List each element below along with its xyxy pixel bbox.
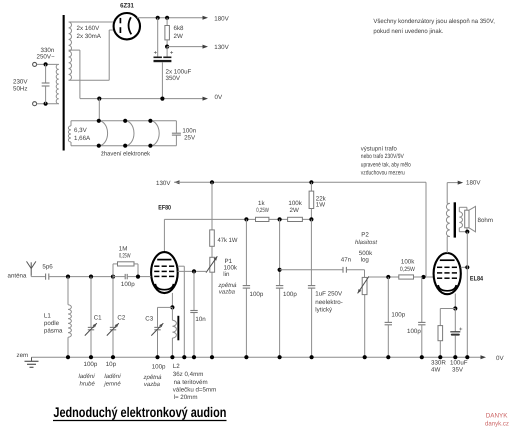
EF80 grid g1 dashes xyxy=(154,275,159,277)
svg-text:na teritovém: na teritovém xyxy=(174,379,208,386)
svg-text:l= 20mm: l= 20mm xyxy=(174,394,198,401)
capacitor 100p grid to ground xyxy=(421,277,423,322)
wire 130V down to EL84 grid node xyxy=(425,182,427,276)
node 130V junction xyxy=(165,45,169,49)
svg-text:hrubé: hrubé xyxy=(80,381,96,388)
svg-text:zem: zem xyxy=(17,352,29,359)
node 22k junction xyxy=(309,217,313,221)
svg-text:100p: 100p xyxy=(121,281,135,288)
wire primary to 180V xyxy=(446,183,448,204)
wire EF80 g2 to P1 wiper xyxy=(178,270,206,272)
node C2 xyxy=(111,275,115,279)
svg-text:upravené tak, aby mělo: upravené tak, aby mělo xyxy=(361,162,411,169)
svg-text:2W: 2W xyxy=(174,33,183,40)
svg-text:100p: 100p xyxy=(391,312,405,319)
heater of tube 3 xyxy=(150,121,159,146)
node speaker return xyxy=(465,230,469,234)
node g3 return xyxy=(465,265,469,269)
wire speaker return to ground xyxy=(466,232,468,358)
svg-text:L2: L2 xyxy=(173,363,180,370)
svg-text:EF80: EF80 xyxy=(158,204,171,211)
transformer TR1 HT secondary 2x160V winding xyxy=(69,22,72,80)
svg-text:2W: 2W xyxy=(290,207,299,214)
svg-text:180V: 180V xyxy=(466,180,481,187)
L2 core bar xyxy=(177,316,179,341)
wire HT secondary bottom lead xyxy=(69,79,110,81)
svg-text:lin: lin xyxy=(223,271,230,278)
capacitor 100n 25V heater xyxy=(175,121,177,133)
svg-text:350V: 350V xyxy=(166,75,181,82)
svg-text:100n: 100n xyxy=(182,127,196,134)
node cathode junction xyxy=(170,305,174,309)
node input top xyxy=(44,62,48,66)
wire HT secondary center tap xyxy=(69,49,80,51)
wire 100k to EL84 grid xyxy=(414,276,434,278)
inductor L2 feedback coil xyxy=(171,307,173,320)
wire 0V to heater rail xyxy=(98,99,100,121)
svg-text:zpětná: zpětná xyxy=(217,282,237,289)
capacitor 47n coupling xyxy=(342,267,344,273)
svg-text:230V: 230V xyxy=(13,79,28,86)
svg-text:DANYK: DANYK xyxy=(486,412,508,419)
grid leak 1M 0,25W with 100p xyxy=(112,264,114,277)
svg-text:C1: C1 xyxy=(94,315,102,322)
svg-text:zpětná: zpětná xyxy=(143,374,163,381)
svg-text:Jednoduchý elektronkový audion: Jednoduchý elektronkový audion xyxy=(53,404,226,420)
potentiometer P2 500k log body xyxy=(362,277,367,294)
svg-text:danyk.cz: danyk.cz xyxy=(485,421,509,428)
svg-text:100p: 100p xyxy=(407,328,421,335)
resistor 100k 0,25W xyxy=(399,275,414,279)
svg-text:C3: C3 xyxy=(145,316,153,323)
EL84 anode bar xyxy=(440,259,455,261)
svg-text:+: + xyxy=(459,327,463,333)
node anode 100p xyxy=(244,217,248,221)
svg-text:0V: 0V xyxy=(496,355,504,362)
resistor 330R 4W cathode xyxy=(438,326,443,341)
heater of tube 1 xyxy=(99,121,108,146)
svg-text:10n: 10n xyxy=(195,316,206,323)
resistor 100k 2W xyxy=(288,217,303,221)
node 130V 47k xyxy=(210,180,214,184)
rectifier tube 6Z31 envelope xyxy=(114,13,140,39)
svg-text:0,25W: 0,25W xyxy=(119,253,131,260)
svg-text:pokud není uvedeno jinak.: pokud není uvedeno jinak. xyxy=(373,28,443,35)
capacitor 100uF 35V cathode xyxy=(454,309,456,332)
resistor 47k 1W xyxy=(211,182,213,230)
svg-text:vazba: vazba xyxy=(144,381,161,388)
wire ground rail xyxy=(32,356,482,358)
node input bottom xyxy=(44,102,48,106)
capacitor 100p anode to ground xyxy=(245,219,247,285)
svg-text:výstupní trafo: výstupní trafo xyxy=(361,145,398,152)
wire cathode to 330R xyxy=(440,308,455,310)
arrow 0V bottom xyxy=(481,355,487,359)
svg-text:hlasitost: hlasitost xyxy=(355,239,377,246)
node cathode EL84 xyxy=(453,306,457,310)
svg-text:pásma: pásma xyxy=(44,328,63,335)
pentode EF80 envelope xyxy=(151,252,178,293)
svg-text:1W: 1W xyxy=(316,202,325,209)
pentode EL84 envelope xyxy=(434,253,461,294)
svg-text:+: + xyxy=(154,51,158,57)
resistor 1k 0,25W xyxy=(256,217,269,221)
wire heater top rail xyxy=(71,120,176,122)
node EL84 grid xyxy=(421,275,425,279)
svg-text:P2: P2 xyxy=(361,231,369,238)
svg-text:36z 0,4mm: 36z 0,4mm xyxy=(173,371,204,378)
capacitor 1uF 250V xyxy=(310,219,312,285)
node C1 xyxy=(89,275,93,279)
ground rail nodes xyxy=(66,355,70,359)
wire 6Z31 cathode to 180V rail xyxy=(137,17,203,19)
EL84 cathode arc xyxy=(438,285,456,291)
transformer TR1 core xyxy=(63,15,65,151)
6Z31 anode bar 2 xyxy=(119,27,121,33)
svg-text:100k: 100k xyxy=(401,259,415,266)
ground symbol xyxy=(31,357,33,361)
svg-text:neelektro-: neelektro- xyxy=(315,299,343,306)
svg-text:100p: 100p xyxy=(84,361,98,368)
EL84 grid g2 dashes xyxy=(437,272,442,274)
arrow 130V xyxy=(203,45,209,49)
EF80 cathode arc xyxy=(155,284,173,290)
wire tank rail xyxy=(49,276,113,278)
svg-text:180V: 180V xyxy=(214,15,229,22)
node 0V filter cap xyxy=(160,97,164,101)
wire heater bottom rail xyxy=(71,145,176,147)
EF80 anode bar xyxy=(157,259,171,261)
output transformer core xyxy=(454,202,456,237)
capacitor 2x100uF 350V filter xyxy=(157,18,159,57)
6Z31 anode bar 1 xyxy=(119,18,121,23)
svg-text:25V: 25V xyxy=(184,134,196,141)
terminal input L xyxy=(33,62,37,66)
node grid join xyxy=(136,275,140,279)
svg-text:jemné: jemné xyxy=(103,381,121,388)
svg-text:47n: 47n xyxy=(341,257,352,264)
wire EF80 g3 to ground xyxy=(178,265,185,267)
EF80 grid g2 dashes xyxy=(154,270,159,272)
wire input top xyxy=(37,63,58,65)
variable capacitor C3 feedback xyxy=(154,326,160,328)
svg-text:47k 1W: 47k 1W xyxy=(218,237,238,244)
wire EL84 anode to transformer xyxy=(446,237,448,254)
wire 47n to P2 top xyxy=(364,270,366,278)
transformer TR1 heater winding 6,3V xyxy=(70,121,72,126)
capacitor 100p wiper to ground xyxy=(387,277,389,322)
node 1k-100k junction xyxy=(278,217,282,221)
svg-text:8ohm: 8ohm xyxy=(478,217,493,224)
svg-text:50Hz: 50Hz xyxy=(13,86,27,93)
node wiper 100p xyxy=(386,275,390,279)
heater of tube 2 xyxy=(125,121,134,146)
svg-text:1,66A: 1,66A xyxy=(74,135,91,142)
node g2 10n xyxy=(192,269,196,273)
wire antenna to 5p6 xyxy=(30,275,32,278)
node 180V rail cap xyxy=(156,16,160,20)
wire secondary bottom xyxy=(458,228,460,232)
svg-text:100p: 100p xyxy=(152,363,166,370)
svg-text:Všechny kondenzátory jsou ales: Všechny kondenzátory jsou alespoň na 350… xyxy=(373,18,495,25)
svg-text:130V: 130V xyxy=(156,180,171,187)
svg-text:100p: 100p xyxy=(250,291,264,298)
svg-text:C2: C2 xyxy=(117,315,125,322)
capacitor 100p grid series xyxy=(113,276,125,278)
svg-text:+: + xyxy=(170,51,174,57)
svg-text:5p6: 5p6 xyxy=(42,264,53,271)
wire 130V distribution rail xyxy=(174,181,426,183)
capacitor 5p6 antenna xyxy=(45,274,47,280)
svg-text:ladění: ladění xyxy=(79,373,97,380)
node 0V heater drop xyxy=(97,97,101,101)
svg-text:vazba: vazba xyxy=(219,288,236,295)
wire EL84 g3 to speaker return xyxy=(461,266,468,268)
wire input bottom xyxy=(37,103,58,105)
svg-text:100k: 100k xyxy=(288,200,302,207)
wire EF80 cathode xyxy=(171,293,173,308)
svg-text:žhavení elektronek: žhavení elektronek xyxy=(101,150,151,157)
svg-text:EL84: EL84 xyxy=(470,275,484,282)
svg-text:6,3V: 6,3V xyxy=(74,127,88,134)
svg-text:válečku d=5mm: válečku d=5mm xyxy=(173,387,217,394)
svg-text:35V: 35V xyxy=(452,366,464,373)
capacitor 10n screen bypass xyxy=(193,271,195,310)
variable capacitor C2 fine tuning xyxy=(112,277,114,327)
P2 wiper arrow xyxy=(358,276,369,293)
variable capacitor C1 coarse tuning xyxy=(90,277,92,327)
svg-text:ladění: ladění xyxy=(104,373,122,380)
svg-text:2x 160V: 2x 160V xyxy=(77,25,101,32)
svg-text:0,25W: 0,25W xyxy=(400,266,415,273)
6Z31 cathode arc xyxy=(129,17,132,34)
arrow 0V top xyxy=(203,97,209,101)
P1 wiper arrow xyxy=(206,256,217,272)
EL84 grid g3 dashes xyxy=(437,266,442,268)
inductor L1 antenna coil xyxy=(67,277,69,305)
node 130V 22k xyxy=(309,180,313,184)
wire EF80 anode rail xyxy=(163,219,165,252)
capacitor 330n 250V~ across mains xyxy=(45,64,47,82)
svg-text:0,25W: 0,25W xyxy=(256,207,269,214)
terminal input N xyxy=(33,102,37,106)
svg-text:2x 30mA: 2x 30mA xyxy=(77,33,102,40)
svg-text:1M: 1M xyxy=(119,246,128,253)
EL84 grid g1 dashes xyxy=(437,277,442,279)
resistor 22k 1W xyxy=(310,182,312,191)
wire junction to 47n xyxy=(279,219,281,285)
wire speaker bottom xyxy=(466,228,468,232)
svg-text:6Z31: 6Z31 xyxy=(120,3,134,10)
svg-text:6k8: 6k8 xyxy=(174,25,185,32)
svg-text:10p: 10p xyxy=(106,361,117,368)
node 180V rail resistor xyxy=(165,16,169,20)
arrow 180V output xyxy=(458,181,464,185)
svg-text:250V~: 250V~ xyxy=(37,54,55,61)
potentiometer P1 100k lin body xyxy=(210,257,215,272)
wire 130V rail xyxy=(167,46,203,48)
capacitor 100p junction to ground xyxy=(276,285,283,287)
svg-text:130V: 130V xyxy=(214,44,229,51)
wire grid g1 from tank xyxy=(138,276,151,278)
antenna xyxy=(30,262,32,276)
svg-text:nebo trafo 230V/9V: nebo trafo 230V/9V xyxy=(361,153,405,160)
resistor 6k8 2W xyxy=(166,18,168,26)
svg-text:lytický: lytický xyxy=(315,307,333,314)
svg-text:4W: 4W xyxy=(431,366,440,373)
svg-text:log: log xyxy=(361,257,370,264)
svg-text:0V: 0V xyxy=(215,94,223,101)
output transformer secondary winding xyxy=(459,212,462,228)
transformer TR1 primary winding xyxy=(56,64,59,103)
wire EL84 cathode xyxy=(454,294,456,309)
wire HT secondary top lead to anode 1 xyxy=(69,21,114,23)
svg-text:podle: podle xyxy=(44,320,60,327)
svg-text:100p: 100p xyxy=(283,291,297,298)
wire P2 wiper to 100k xyxy=(369,276,399,278)
EF80 grid g3 dashes xyxy=(154,265,159,267)
speaker 8ohm xyxy=(465,210,469,228)
node L1 xyxy=(66,275,70,279)
arrow 180V xyxy=(203,16,209,20)
wire cathode to C3 xyxy=(158,306,173,308)
svg-text:L1: L1 xyxy=(44,313,51,320)
arrow 130V feed xyxy=(174,180,180,184)
svg-text:vzduchovou mezeru: vzduchovou mezeru xyxy=(361,169,405,176)
svg-text:1uF 250V: 1uF 250V xyxy=(315,290,343,297)
wire 0V rail top xyxy=(80,98,203,100)
output transformer primary winding xyxy=(446,203,449,236)
svg-text:anténa: anténa xyxy=(8,273,27,280)
wire secondary top to speaker xyxy=(458,207,460,212)
